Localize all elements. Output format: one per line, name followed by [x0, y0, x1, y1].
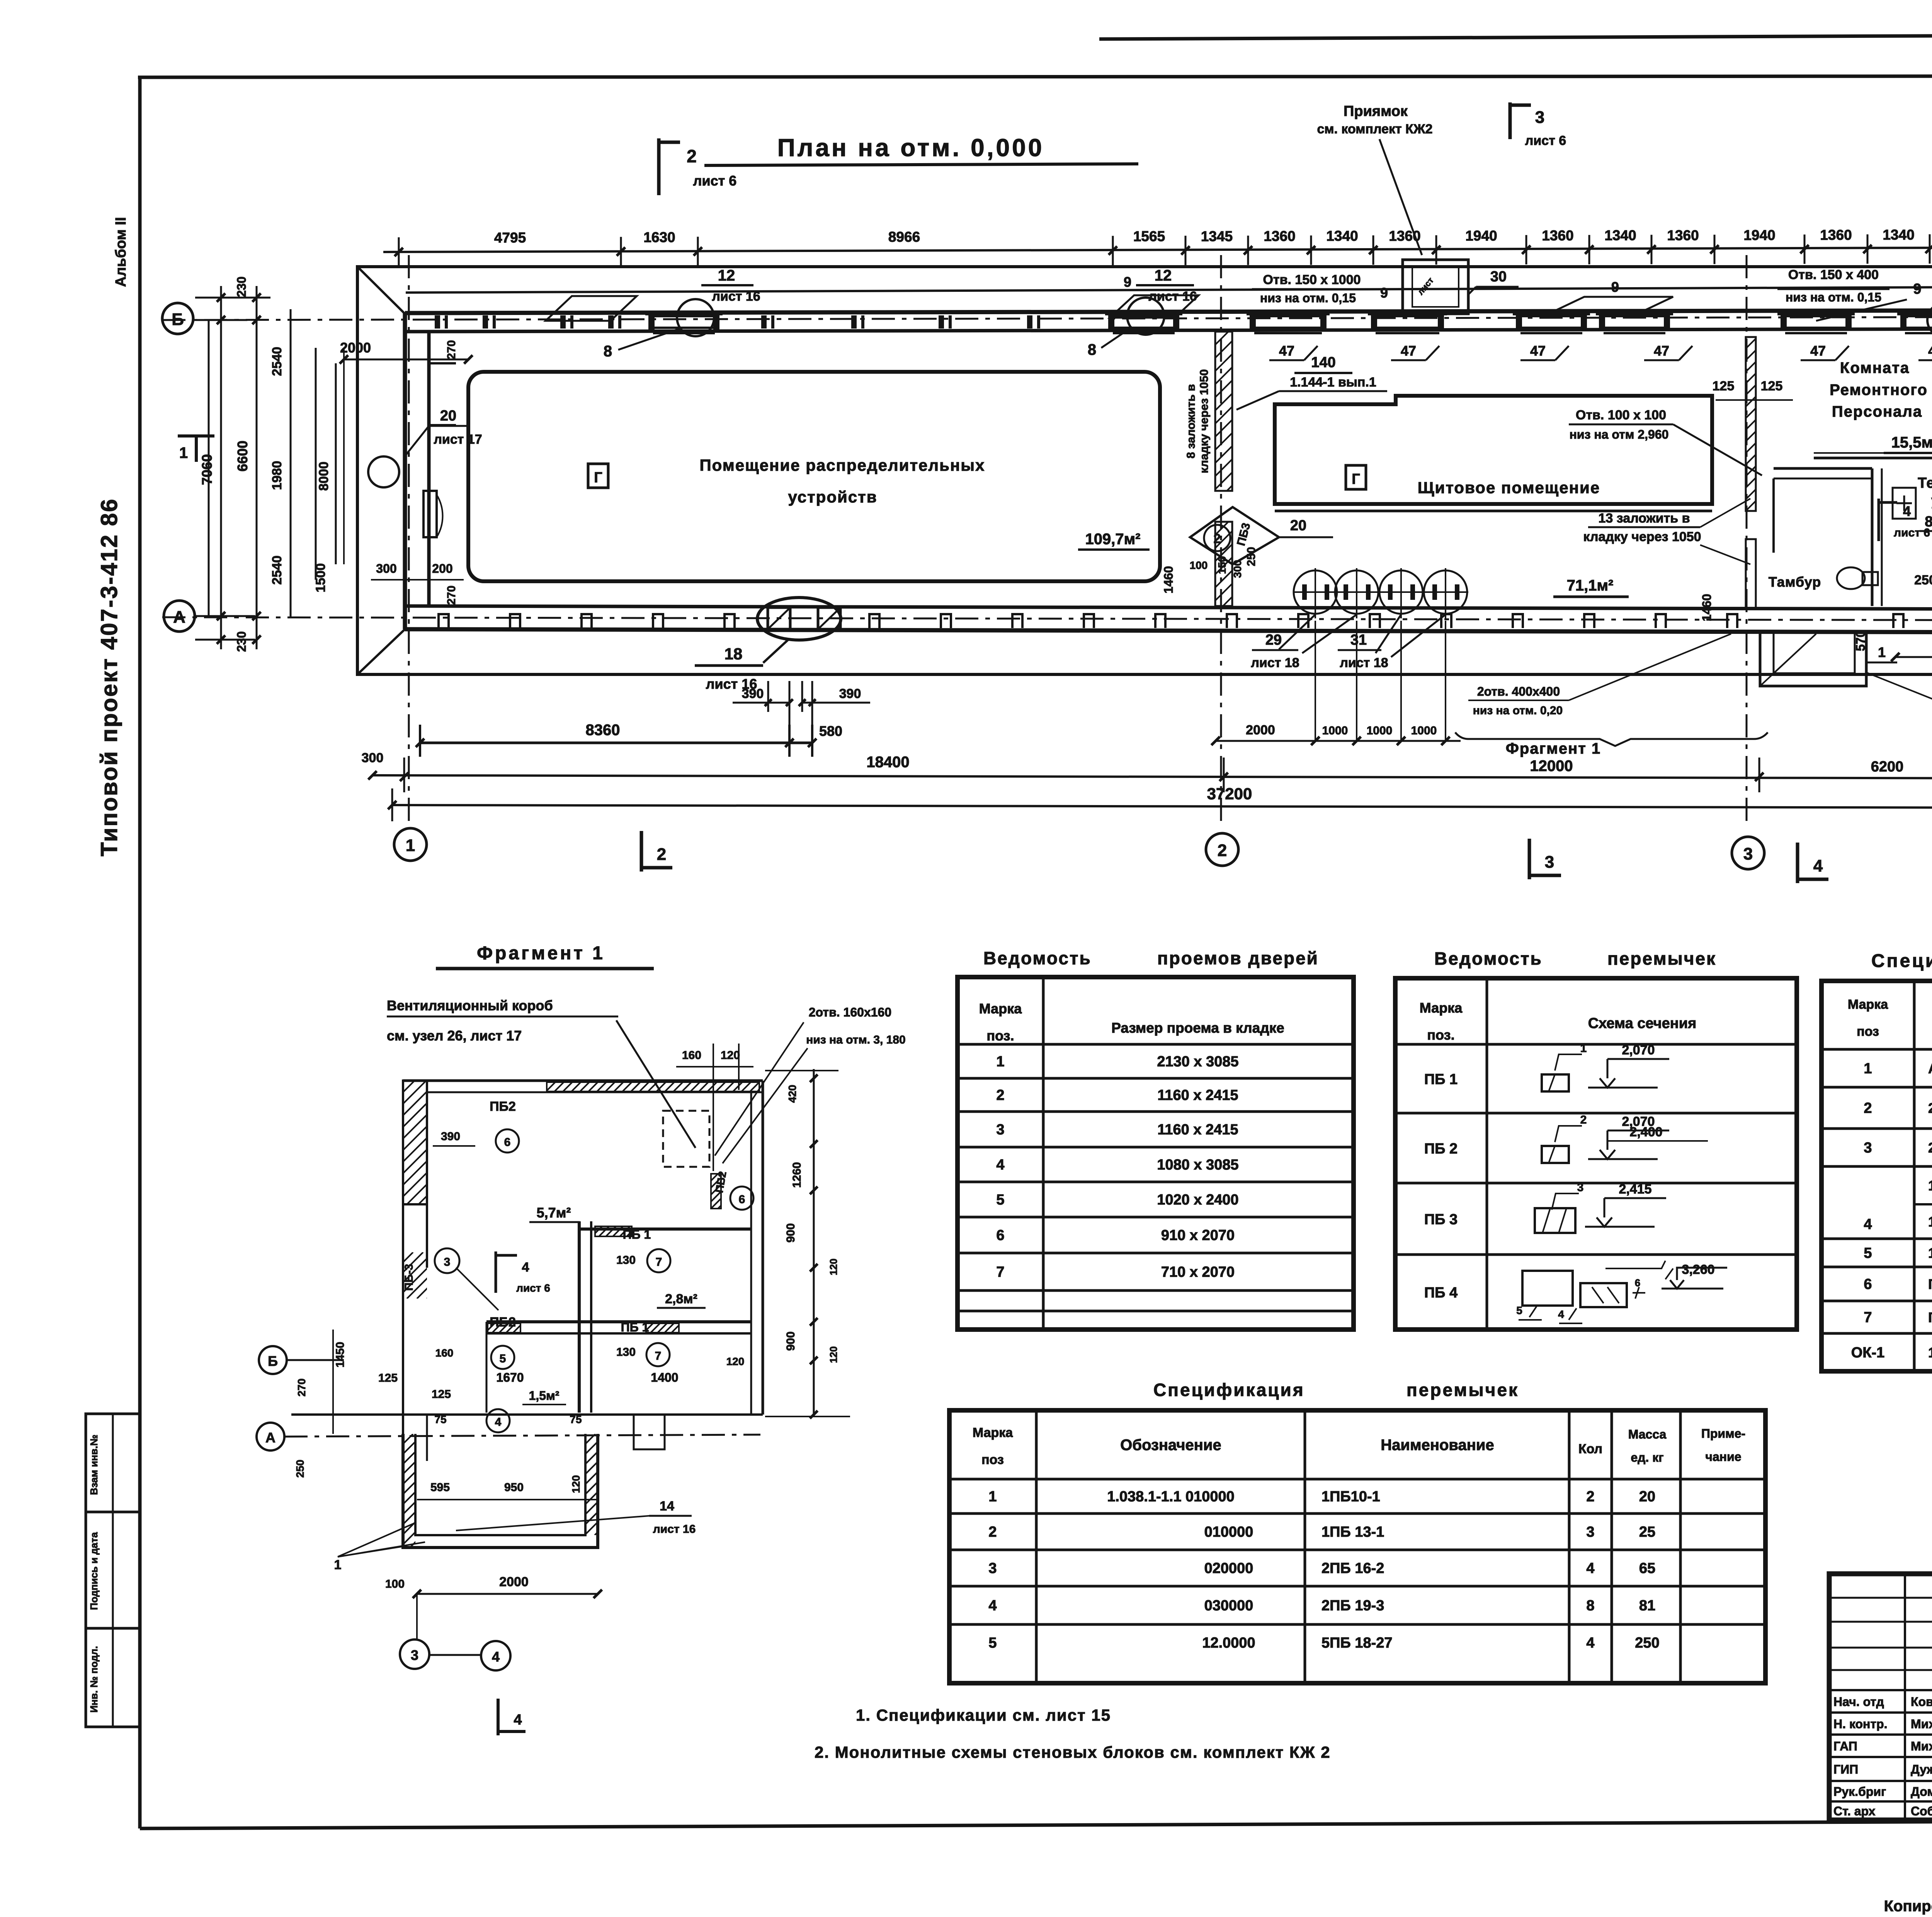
- svg-text:1ПБ10-1: 1ПБ10-1: [1321, 1489, 1380, 1505]
- fragment lintel hatches: [595, 1226, 632, 1236]
- svg-text:1340: 1340: [1326, 228, 1358, 244]
- svg-text:ед. кг: ед. кг: [1631, 1451, 1663, 1464]
- svg-text:Копировал Ермолина: Копировал Ермолина: [1884, 1898, 1932, 1915]
- left dimension chains: [220, 286, 222, 649]
- svg-text:лист 18: лист 18: [1251, 655, 1299, 670]
- window circle callout 8 (left): [677, 299, 714, 336]
- svg-text:2: 2: [1586, 1489, 1594, 1505]
- svg-text:12000: 12000: [1530, 758, 1573, 775]
- svg-text:910 х 2070: 910 х 2070: [1161, 1227, 1235, 1244]
- svg-text:4: 4: [495, 1416, 502, 1428]
- svg-text:поз.: поз.: [986, 1028, 1014, 1044]
- fragment partitions: [578, 1221, 581, 1413]
- priyamok top rect: [1403, 260, 1468, 314]
- axis-1 entrance: [368, 456, 399, 487]
- svg-text:2: 2: [1864, 1100, 1872, 1117]
- svg-text:1000: 1000: [1411, 724, 1437, 737]
- svg-text:1020 х 2400: 1020 х 2400: [1157, 1192, 1238, 1208]
- room: raspredelitelnyh ustroistv: [468, 372, 1160, 581]
- svg-text:7: 7: [656, 1256, 662, 1268]
- svg-text:см. узел 26, лист 17: см. узел 26, лист 17: [387, 1028, 522, 1044]
- svg-text:Спецификация элементов запол: Спецификация элементов заполнения проемо…: [1871, 951, 1932, 971]
- svg-text:План на отм. 0,000: План на отм. 0,000: [777, 134, 1044, 162]
- svg-text:8: 8: [1586, 1598, 1594, 1614]
- svg-text:1.038.1-1.1 010000: 1.038.1-1.1 010000: [1107, 1489, 1235, 1505]
- svg-text:поз.: поз.: [1427, 1027, 1454, 1043]
- second chain line with markers 12 list 16: [406, 287, 1932, 293]
- hatched partition wall: [1215, 332, 1232, 491]
- 4 list 6 marker fragment: [495, 1251, 497, 1293]
- svg-text:390: 390: [742, 686, 764, 701]
- svg-text:ПБ 1: ПБ 1: [623, 1227, 651, 1241]
- svg-text:7: 7: [996, 1264, 1004, 1280]
- svg-text:6: 6: [739, 1193, 745, 1206]
- svg-text:кладку через 1050: кладку через 1050: [1583, 529, 1701, 544]
- svg-text:5: 5: [996, 1192, 1004, 1208]
- svg-text:3: 3: [1864, 1140, 1872, 1156]
- svg-text:125: 125: [432, 1388, 451, 1401]
- svg-text:1: 1: [1580, 1042, 1587, 1055]
- svg-text:Спецификация: Спецификация: [1153, 1380, 1305, 1400]
- svg-text:чание: чание: [1705, 1450, 1741, 1464]
- svg-text:5: 5: [988, 1635, 997, 1651]
- svg-text:ПБ3: ПБ3: [1235, 521, 1253, 547]
- svg-text:6200: 6200: [1871, 759, 1904, 775]
- top trim line: [1099, 33, 1932, 39]
- svg-text:4: 4: [1903, 503, 1911, 519]
- svg-text:2000: 2000: [1246, 723, 1275, 737]
- svg-text:160: 160: [435, 1347, 454, 1359]
- bottom wall lines: [405, 606, 1932, 609]
- left wall: [403, 313, 407, 629]
- svg-text:230: 230: [235, 631, 248, 652]
- axis circle B: [162, 303, 193, 334]
- svg-text:270: 270: [296, 1379, 308, 1397]
- svg-text:595: 595: [430, 1481, 450, 1494]
- svg-text:120: 120: [726, 1355, 745, 1367]
- svg-text:ПБ 3: ПБ 3: [1424, 1212, 1458, 1228]
- svg-text:47: 47: [1928, 343, 1932, 359]
- shelf partition: [1814, 457, 1932, 460]
- svg-text:13 заложить в: 13 заложить в: [1598, 511, 1690, 526]
- svg-text:4: 4: [1586, 1635, 1594, 1651]
- svg-text:2540: 2540: [270, 347, 284, 376]
- svg-text:Альбом II: Альбом II: [113, 217, 129, 287]
- svg-text:Масса: Масса: [1628, 1427, 1667, 1441]
- svg-text:950: 950: [504, 1481, 524, 1494]
- svg-text:300: 300: [1231, 560, 1243, 578]
- lintel sketch PB4: [1522, 1271, 1573, 1306]
- svg-text:130: 130: [616, 1346, 636, 1359]
- svg-text:12: 12: [718, 267, 735, 284]
- svg-text:120: 120: [721, 1049, 740, 1062]
- svg-text:4: 4: [1864, 1216, 1872, 1233]
- svg-text:Марка: Марка: [979, 1001, 1022, 1016]
- svg-text:2отв. 160х160: 2отв. 160х160: [809, 1005, 891, 1019]
- svg-text:Отв. 150 х 1000: Отв. 150 х 1000: [1263, 272, 1361, 287]
- svg-text:Наименование: Наименование: [1381, 1437, 1494, 1454]
- svg-text:580: 580: [819, 723, 842, 739]
- svg-text:Отв. 100 х 100: Отв. 100 х 100: [1576, 408, 1666, 422]
- svg-text:ПБ2: ПБ2: [490, 1315, 516, 1330]
- svg-text:ПБ 1: ПБ 1: [1424, 1071, 1458, 1088]
- partition wall right section: [1746, 337, 1756, 511]
- svg-text:125: 125: [378, 1372, 398, 1384]
- svg-text:Персонала: Персонала: [1832, 403, 1922, 420]
- svg-text:3: 3: [1743, 844, 1753, 863]
- svg-text:Собко: Собко: [1911, 1804, 1932, 1818]
- svg-text:250: 250: [1245, 547, 1258, 566]
- svg-text:7: 7: [655, 1350, 662, 1362]
- svg-text:9: 9: [1913, 281, 1921, 297]
- svg-text:Схема сечения: Схема сечения: [1588, 1015, 1697, 1032]
- svg-text:1400: 1400: [651, 1371, 678, 1384]
- svg-text:лист 16: лист 16: [712, 289, 760, 304]
- svg-text:Нач. отд: Нач. отд: [1833, 1695, 1884, 1709]
- svg-text:Тепловой: Тепловой: [1918, 475, 1932, 491]
- section marker 2 bottom: [640, 831, 643, 872]
- svg-text:12: 12: [1155, 267, 1172, 284]
- svg-text:1940: 1940: [1465, 228, 1497, 243]
- svg-text:Б: Б: [268, 1353, 278, 1369]
- svg-text:8000: 8000: [316, 461, 331, 491]
- svg-text:130: 130: [616, 1254, 636, 1267]
- section marker 4 bottom: [1796, 843, 1799, 883]
- svg-text:1345: 1345: [1201, 228, 1233, 244]
- svg-text:030000: 030000: [1204, 1598, 1253, 1614]
- svg-text:лист 6: лист 6: [1894, 526, 1930, 539]
- svg-text:230: 230: [235, 276, 248, 297]
- room: shchitovoe pomeshchenie: [1275, 396, 1712, 504]
- svg-text:3: 3: [1577, 1181, 1584, 1194]
- svg-text:29: 29: [1265, 632, 1282, 648]
- svg-text:4: 4: [996, 1157, 1004, 1173]
- svg-text:1500: 1500: [313, 563, 328, 592]
- svg-text:Помещение распределительных: Помещение распределительных: [699, 456, 985, 474]
- svg-text:Отв. 150 х 400: Отв. 150 х 400: [1788, 267, 1879, 282]
- svg-text:47: 47: [1530, 343, 1546, 359]
- svg-text:низ на отм. 0,15: низ на отм. 0,15: [1260, 291, 1356, 305]
- svg-text:лист: лист: [1415, 276, 1435, 297]
- svg-text:1: 1: [406, 836, 415, 855]
- svg-text:4: 4: [1558, 1308, 1564, 1320]
- svg-text:Ведомость: Ведомость: [983, 948, 1092, 968]
- lintel sketch PB2: [1542, 1146, 1569, 1163]
- svg-text:2,415: 2,415: [1619, 1182, 1651, 1197]
- section marker 3 top: [1509, 102, 1512, 139]
- svg-text:8360: 8360: [586, 722, 620, 739]
- title block (stamp): [1829, 1574, 1932, 1820]
- fragment pit diagonals: [338, 1523, 415, 1557]
- svg-text:47: 47: [1654, 343, 1669, 359]
- svg-text:1630: 1630: [643, 230, 675, 245]
- corner chamfers: [357, 267, 405, 314]
- svg-text:2. Монолитные схемы стеновых б: 2. Монолитные схемы стеновых блоков см. …: [815, 1743, 1331, 1761]
- svg-text:Фрагмент 1: Фрагмент 1: [1506, 740, 1601, 757]
- svg-text:низ на отм. 0,20: низ на отм. 0,20: [1473, 704, 1563, 717]
- verticals from circles to dim chain: [1315, 621, 1316, 741]
- svg-text:25: 25: [1639, 1524, 1655, 1540]
- svg-text:1340: 1340: [1883, 227, 1914, 243]
- svg-text:ПБ2: ПБ2: [490, 1099, 516, 1114]
- svg-text:125: 125: [1761, 379, 1783, 393]
- chain 8360/580: [420, 742, 812, 744]
- svg-text:12.0000: 12.0000: [1202, 1635, 1255, 1651]
- svg-text:ПБ 1: ПБ 1: [621, 1320, 649, 1334]
- svg-text:Приме-: Приме-: [1701, 1427, 1745, 1440]
- section marker 1 (left): [195, 436, 198, 462]
- svg-text:3: 3: [996, 1122, 1004, 1138]
- svg-text:Вентиляционный короб: Вентиляционный короб: [387, 998, 553, 1013]
- svg-text:100: 100: [385, 1578, 405, 1590]
- svg-text:1670: 1670: [496, 1371, 524, 1384]
- svg-text:3,260: 3,260: [1682, 1262, 1714, 1277]
- svg-text:47: 47: [1401, 343, 1416, 359]
- svg-text:109,7м²: 109,7м²: [1085, 531, 1140, 548]
- axis circle 1: [394, 828, 427, 861]
- svg-text:7060: 7060: [199, 454, 215, 485]
- svg-text:37200: 37200: [1207, 785, 1252, 803]
- svg-text:лист 17: лист 17: [434, 432, 482, 447]
- svg-text:1.136.5-16.4.1.01.00.004: 1.136.5-16.4.1.01.00.004: [1928, 1345, 1932, 1360]
- fragment bottom walls: [291, 1413, 763, 1416]
- oval callout 18 on bottom wall: [757, 598, 841, 640]
- svg-text:1.136-12 в.1: 1.136-12 в.1: [1928, 1214, 1932, 1230]
- svg-text:4: 4: [988, 1598, 997, 1614]
- svg-text:47: 47: [1279, 343, 1294, 359]
- bottom wall column ticks: [439, 614, 449, 628]
- svg-text:270: 270: [445, 340, 458, 359]
- svg-text:5,7м²: 5,7м²: [537, 1205, 571, 1221]
- svg-text:47: 47: [1810, 343, 1826, 359]
- svg-text:Ремонтного: Ремонтного: [1830, 381, 1928, 398]
- svg-text:6: 6: [504, 1136, 511, 1149]
- svg-text:18400: 18400: [866, 754, 909, 771]
- svg-text:4: 4: [522, 1260, 529, 1275]
- svg-text:лист 18: лист 18: [1340, 655, 1388, 670]
- svg-text:1000: 1000: [1367, 724, 1393, 737]
- svg-text:2,400: 2,400: [1629, 1125, 1662, 1139]
- svg-text:3: 3: [1586, 1524, 1594, 1540]
- svg-text:31: 31: [1350, 632, 1367, 648]
- svg-text:1,5м²: 1,5м²: [529, 1389, 560, 1403]
- chain 37200: [392, 805, 1932, 808]
- svg-text:1. Спецификации см. лист 15: 1. Спецификации см. лист 15: [856, 1706, 1111, 1724]
- svg-text:7: 7: [1864, 1309, 1872, 1326]
- svg-text:4: 4: [514, 1712, 522, 1728]
- leaders 29/31 list 18: [1279, 615, 1315, 649]
- svg-text:710 х 2070: 710 х 2070: [1161, 1264, 1235, 1280]
- svg-text:лист 6: лист 6: [516, 1282, 550, 1294]
- svg-text:5: 5: [1516, 1304, 1522, 1316]
- svg-text:2ПБ 16-2: 2ПБ 16-2: [1321, 1560, 1384, 1577]
- svg-text:4: 4: [1813, 856, 1823, 875]
- svg-text:1.136.5-19.06.000.сб: 1.136.5-19.06.000.сб: [1928, 1178, 1932, 1193]
- svg-text:А: А: [265, 1430, 276, 1445]
- svg-text:15,5м²: 15,5м²: [1891, 434, 1932, 451]
- svg-text:1000: 1000: [1322, 724, 1348, 737]
- svg-text:6: 6: [1635, 1277, 1640, 1289]
- fragment 1 bracket: [1455, 732, 1768, 746]
- svg-text:81: 81: [1639, 1598, 1655, 1614]
- svg-text:120: 120: [570, 1475, 582, 1493]
- svg-text:2: 2: [996, 1087, 1004, 1103]
- svg-text:низ на отм. 3, 180: низ на отм. 3, 180: [806, 1033, 906, 1046]
- svg-text:2000: 2000: [499, 1575, 529, 1589]
- section marker 2 list 6 (top): [657, 138, 661, 195]
- svg-text:1980: 1980: [270, 461, 284, 490]
- svg-text:ГАП: ГАП: [1833, 1739, 1857, 1753]
- svg-text:лист 6: лист 6: [1525, 133, 1566, 148]
- svg-text:поз: поз: [981, 1452, 1004, 1467]
- chain 2000 1000 1000 1000: [1216, 740, 1461, 742]
- svg-text:1ПБ 13-1: 1ПБ 13-1: [1321, 1524, 1384, 1540]
- svg-text:2,070: 2,070: [1622, 1043, 1655, 1057]
- svg-text:1: 1: [179, 444, 188, 461]
- svg-text:14: 14: [660, 1499, 674, 1514]
- svg-text:3: 3: [411, 1647, 418, 1663]
- svg-text:30: 30: [1490, 269, 1507, 285]
- svg-text:5ПБ 18-27: 5ПБ 18-27: [1321, 1635, 1393, 1651]
- svg-text:20: 20: [1290, 518, 1306, 534]
- svg-text:1565: 1565: [1133, 228, 1165, 244]
- margin stamp table: [86, 1414, 140, 1727]
- svg-text:1: 1: [1878, 644, 1886, 660]
- svg-text:Марка: Марка: [973, 1425, 1013, 1440]
- fragment axes: [259, 1346, 287, 1374]
- svg-text:2503: 2503: [1914, 573, 1932, 587]
- svg-text:20: 20: [440, 408, 456, 424]
- svg-text:Марка: Марка: [1848, 997, 1888, 1012]
- svg-text:8: 8: [604, 343, 612, 360]
- svg-text:160: 160: [682, 1049, 701, 1062]
- axis vertical lines 1-4: [408, 255, 410, 827]
- svg-text:8: 8: [1088, 341, 1096, 358]
- svg-text:Альбом V АРИ-3: Альбом V АРИ-3: [1928, 1061, 1932, 1076]
- svg-text:390: 390: [839, 686, 861, 701]
- svg-text:ПБ 2: ПБ 2: [1424, 1141, 1458, 1157]
- svg-text:150: 150: [1216, 556, 1228, 574]
- axis circle A (left): [164, 601, 195, 632]
- window circle callout 8 (mid): [1127, 298, 1164, 335]
- leader parallelograms 9: [1554, 297, 1673, 311]
- small stubs left wall top: [429, 362, 456, 364]
- 4 list 6 marker: [1878, 499, 1880, 541]
- svg-text:Обозначение: Обозначение: [1120, 1437, 1221, 1454]
- top wall window/pier marks: [435, 315, 440, 329]
- svg-text:6: 6: [996, 1227, 1004, 1244]
- svg-text:лист 16: лист 16: [653, 1523, 696, 1536]
- svg-text:4: 4: [1586, 1560, 1594, 1577]
- building plan: outer blind-area outline: [357, 267, 1932, 674]
- svg-text:1360: 1360: [1820, 227, 1852, 243]
- svg-text:Щитовое помещение: Щитовое помещение: [1418, 478, 1600, 497]
- svg-text:125: 125: [1713, 379, 1735, 393]
- svg-text:Взам инв.№: Взам инв.№: [88, 1435, 100, 1495]
- room letter G box: [588, 464, 608, 488]
- svg-text:2,8м²: 2,8м²: [665, 1292, 697, 1306]
- svg-text:Дуженкова: Дуженкова: [1911, 1762, 1932, 1776]
- svg-text:4: 4: [492, 1649, 500, 1665]
- equipment circles on axis A: [1294, 570, 1337, 614]
- svg-text:Комната: Комната: [1840, 359, 1910, 376]
- svg-text:поз: поз: [1857, 1024, 1879, 1039]
- svg-text:1360: 1360: [1542, 228, 1573, 243]
- svg-text:1: 1: [334, 1558, 342, 1572]
- svg-text:Типовой проект 407-3-412 86: Типовой проект 407-3-412 86: [96, 498, 122, 856]
- svg-text:Рук.бриг: Рук.бриг: [1833, 1785, 1886, 1799]
- svg-text:лист 6: лист 6: [693, 173, 737, 189]
- svg-text:1080 х 3085: 1080 х 3085: [1157, 1157, 1238, 1173]
- svg-text:9: 9: [1380, 285, 1388, 301]
- svg-text:2: 2: [657, 845, 666, 864]
- svg-text:низ на отм. 0,15: низ на отм. 0,15: [1786, 290, 1881, 304]
- svg-text:3: 3: [444, 1256, 451, 1268]
- axis circle 2: [1206, 833, 1238, 866]
- fragment axis circles 3,4: [400, 1639, 429, 1669]
- svg-text:5: 5: [500, 1352, 506, 1365]
- svg-text:100: 100: [1190, 559, 1208, 571]
- svg-text:1360: 1360: [1264, 228, 1295, 244]
- svg-text:2: 2: [988, 1524, 997, 1540]
- svg-text:3: 3: [1545, 853, 1554, 872]
- svg-text:6600: 6600: [235, 441, 250, 472]
- svg-text:1340: 1340: [1604, 228, 1636, 243]
- top wall outer line: [405, 310, 1932, 313]
- svg-text:1: 1: [996, 1054, 1004, 1070]
- svg-text:120: 120: [828, 1258, 839, 1275]
- svg-text:390: 390: [441, 1130, 460, 1143]
- svg-text:низ на отм 2,960: низ на отм 2,960: [1570, 427, 1669, 441]
- svg-text:кладку через 1050: кладку через 1050: [1198, 369, 1211, 473]
- axis circle 3: [1732, 837, 1764, 869]
- lintel sketch PB3: [1535, 1208, 1575, 1233]
- svg-text:ГОСТ 6629-74*: ГОСТ 6629-74*: [1928, 1276, 1932, 1292]
- svg-text:1460: 1460: [1700, 594, 1714, 621]
- svg-text:1160 х 2415: 1160 х 2415: [1157, 1087, 1238, 1103]
- top dimension chain: [383, 247, 1932, 252]
- sheet frame: [138, 77, 142, 1828]
- svg-text:устройств: устройств: [788, 488, 877, 506]
- svg-text:010000: 010000: [1204, 1524, 1253, 1540]
- svg-text:1: 1: [988, 1489, 997, 1505]
- svg-text:71,1м²: 71,1м²: [1567, 577, 1614, 594]
- svg-text:2: 2: [1580, 1113, 1587, 1126]
- svg-text:1360: 1360: [1667, 227, 1699, 243]
- svg-text:Тамбур: Тамбур: [1769, 574, 1821, 590]
- svg-text:3: 3: [988, 1560, 997, 1577]
- svg-text:Приямок: Приямок: [1344, 103, 1408, 119]
- svg-text:8 заложить в: 8 заложить в: [1185, 384, 1197, 458]
- svg-text:140: 140: [1311, 354, 1335, 371]
- svg-text:250: 250: [294, 1460, 306, 1478]
- svg-text:200: 200: [432, 562, 452, 575]
- svg-text:65: 65: [1639, 1560, 1655, 1577]
- svg-text:120: 120: [828, 1346, 839, 1363]
- svg-text:Подпись и дата: Подпись и дата: [88, 1532, 100, 1610]
- svg-text:2ПБ 19-3: 2ПБ 19-3: [1321, 1598, 1384, 1614]
- axis A line: [162, 617, 1932, 620]
- svg-text:4795: 4795: [494, 230, 526, 245]
- svg-text:5: 5: [1864, 1245, 1872, 1262]
- svg-text:Марка: Марка: [1420, 1000, 1463, 1016]
- svg-text:Кол: Кол: [1578, 1442, 1602, 1456]
- svg-text:8966: 8966: [888, 229, 920, 245]
- svg-text:Фрагмент 1: Фрагмент 1: [477, 943, 605, 964]
- axis B line: [162, 317, 1932, 320]
- top wall inner line: [405, 329, 1932, 332]
- svg-text:2: 2: [1218, 841, 1227, 860]
